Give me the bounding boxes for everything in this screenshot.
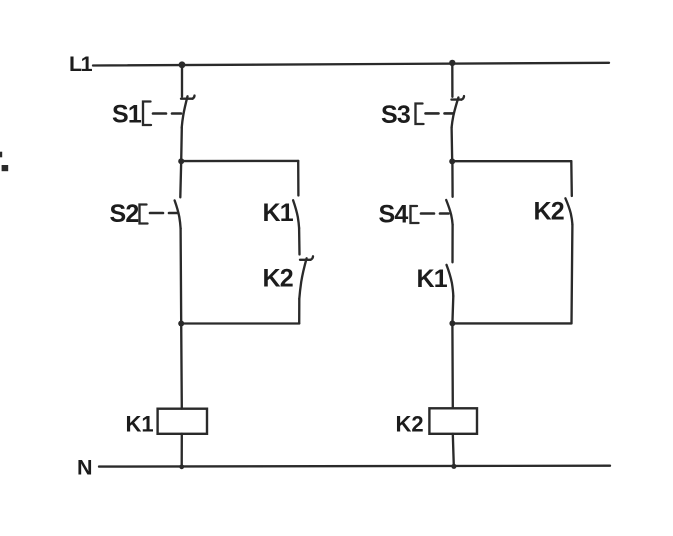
svg-text:K2: K2 [263, 265, 293, 293]
svg-text:K2: K2 [396, 412, 424, 437]
svg-text:S3: S3 [381, 101, 410, 129]
svg-text:N: N [77, 456, 93, 480]
svg-text:K2: K2 [534, 198, 564, 226]
svg-text:K1: K1 [417, 265, 448, 293]
svg-text:S2: S2 [110, 200, 139, 228]
svg-text:S4: S4 [379, 201, 409, 229]
svg-text:K1: K1 [263, 199, 294, 227]
svg-text:K1: K1 [126, 412, 154, 437]
svg-text:S1: S1 [112, 101, 142, 129]
svg-text:L1: L1 [69, 52, 93, 76]
